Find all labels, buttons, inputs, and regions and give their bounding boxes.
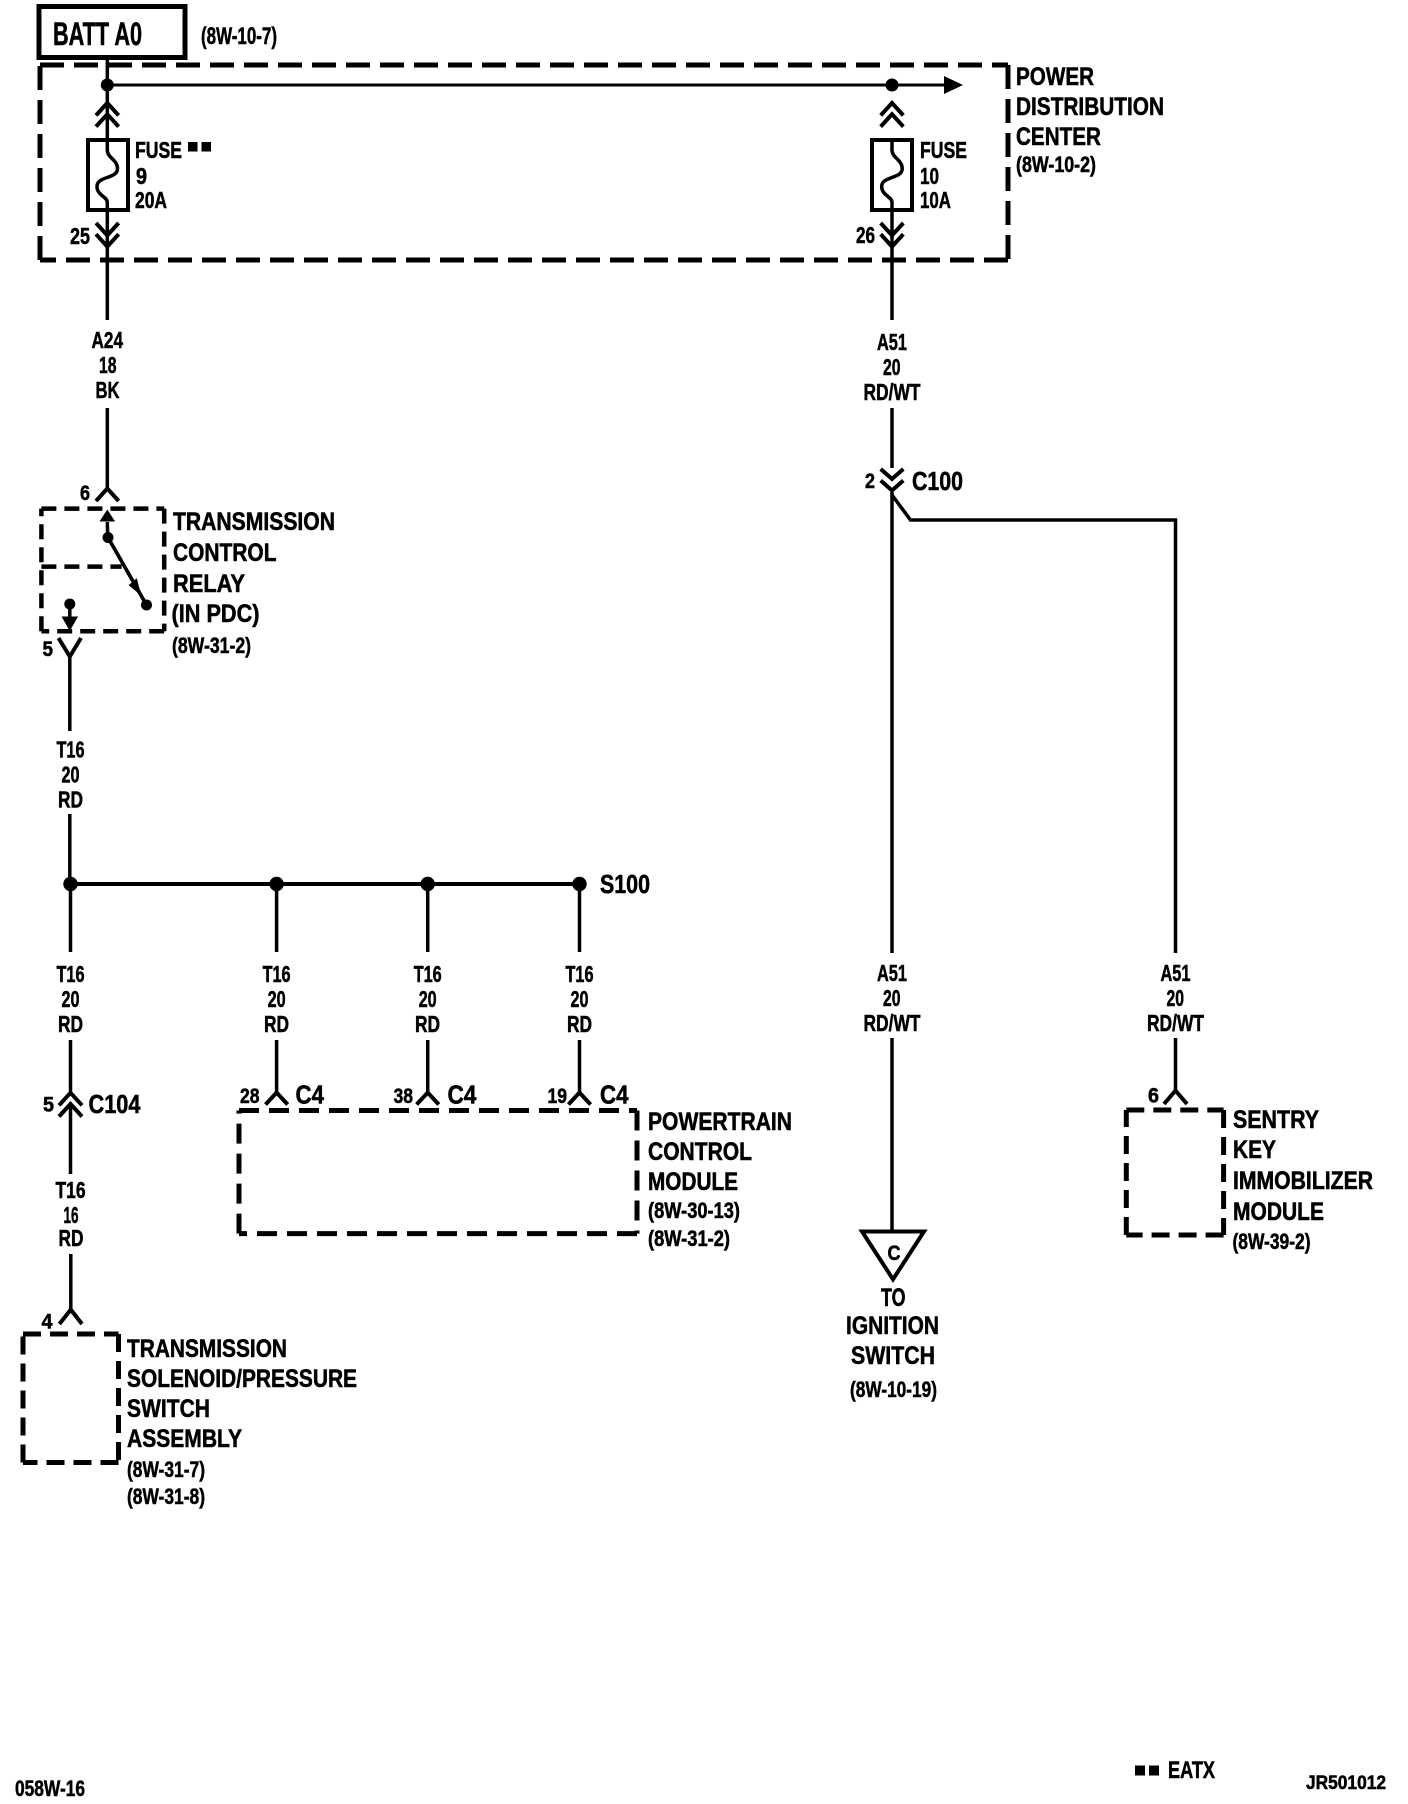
relay common contact arrow (to pin 6) [100, 510, 116, 538]
svg-text:RD: RD [59, 1225, 84, 1251]
svg-text:KEY: KEY [1233, 1136, 1276, 1164]
splice junction dot 3 [421, 877, 435, 891]
wire T16 branch 1 lower segment [69, 1040, 73, 1093]
svg-text:TRANSMISSION: TRANSMISSION [173, 508, 335, 536]
connector chevrons pin 26 [881, 223, 904, 247]
wire A51 segment to immobilizer pin 6 [1174, 1038, 1178, 1091]
svg-text:RD: RD [58, 1011, 83, 1037]
svg-text:18: 18 [99, 352, 117, 378]
svg-text:T16: T16 [566, 961, 594, 987]
connector chevrons pin 25 [96, 223, 119, 247]
wire T16 segment to splice [68, 814, 72, 884]
splice junction dot 4 [572, 877, 586, 891]
svg-text:C4: C4 [296, 1080, 325, 1110]
svg-text:RD: RD [264, 1011, 289, 1037]
svg-text:20: 20 [883, 354, 901, 380]
wire T16 20 RD labels (relay to splice) [57, 737, 85, 813]
svg-text:BK: BK [96, 377, 120, 403]
svg-text:(8W-31-2): (8W-31-2) [648, 1226, 730, 1251]
svg-text:5: 5 [43, 1094, 54, 1117]
svg-text:T16: T16 [263, 961, 291, 987]
svg-text:A51: A51 [1161, 960, 1191, 986]
junction at fuse 9 tap [101, 79, 114, 92]
svg-text:C104: C104 [89, 1089, 141, 1119]
wire T16 branch 3 lower segment [426, 1040, 430, 1093]
power distribution center box [40, 65, 1008, 260]
fuse F9 value labels [135, 137, 211, 213]
svg-text:20: 20 [62, 986, 80, 1012]
svg-text:2: 2 [865, 470, 875, 493]
svg-text:10: 10 [920, 163, 939, 189]
svg-text:(8W-30-13): (8W-30-13) [648, 1198, 740, 1223]
wire A24 18 BK labels [92, 327, 124, 403]
wire A51 main segment below C100 [890, 492, 894, 953]
connector chevron relay pin 5 [59, 638, 82, 657]
connector chevron relay pin 6 [96, 489, 119, 502]
fuse F9 [88, 140, 128, 210]
sentry key immobilizer module box [1126, 1110, 1223, 1235]
svg-text:6: 6 [80, 482, 90, 505]
svg-text:4: 4 [42, 1311, 53, 1334]
svg-text:25: 25 [70, 223, 90, 249]
wire T16 20 RD labels branch 2 [263, 961, 291, 1037]
svg-text:CONTROL: CONTROL [173, 539, 277, 567]
svg-text:T16: T16 [56, 1177, 86, 1203]
fuse F10 [872, 140, 912, 210]
connector chevron C4 pin 28 [266, 1093, 288, 1105]
connector chevron immobilizer pin 6 [1164, 1091, 1187, 1104]
junction at fuse 10 tap [886, 79, 899, 92]
connector chevrons fuse 10 line side [881, 103, 904, 127]
svg-text:C4: C4 [600, 1080, 629, 1110]
svg-text:RD: RD [415, 1011, 440, 1037]
wire T16 branch 4 upper segment [578, 884, 582, 952]
sentry key immobilizer module labels [1233, 1106, 1374, 1254]
wire T16 branch 3 upper segment [426, 884, 430, 952]
svg-text:26: 26 [856, 222, 875, 248]
svg-text:20: 20 [419, 986, 437, 1012]
powertrain control module labels [648, 1108, 792, 1251]
wire branch from C100 to sentry key immobilizer (diagonal + horizontal + vertical) [892, 495, 1176, 953]
svg-text:S100: S100 [600, 869, 650, 899]
EATX legend marker squares [1135, 1766, 1159, 1776]
wire T16 20 RD labels branch 1 [57, 961, 85, 1037]
svg-text:(IN PDC): (IN PDC) [172, 600, 260, 628]
svg-text:IGNITION: IGNITION [846, 1312, 939, 1340]
to ignition switch labels [846, 1284, 939, 1402]
connector chevrons C100 [881, 469, 904, 491]
svg-text:20: 20 [62, 762, 80, 788]
svg-text:BATT A0: BATT A0 [53, 16, 142, 52]
off-page connector C to ignition switch [862, 1232, 924, 1280]
transmission solenoid/pressure switch assembly box [23, 1334, 119, 1463]
wire A51 20 RD/WT labels (to immobilizer) [1147, 960, 1204, 1036]
svg-text:20: 20 [268, 986, 286, 1012]
wire A51 20 RD/WT labels (upper) [864, 329, 921, 405]
svg-text:(8W-31-7): (8W-31-7) [127, 1457, 205, 1482]
wire A51 segment to C100 [890, 408, 894, 468]
svg-text:RD: RD [567, 1011, 592, 1037]
svg-text:ASSEMBLY: ASSEMBLY [127, 1425, 242, 1453]
transmission control relay box [41, 509, 164, 632]
svg-text:6: 6 [1148, 1085, 1159, 1108]
wire T16 20 RD labels branch 4 [566, 961, 594, 1037]
svg-text:(8W-31-2): (8W-31-2) [172, 633, 251, 658]
svg-text:SWITCH: SWITCH [851, 1342, 935, 1370]
svg-text:RD/WT: RD/WT [864, 379, 921, 405]
arrow continuation of BATT bus [944, 76, 963, 94]
splice junction dot 1 [63, 877, 77, 891]
svg-text:A51: A51 [877, 960, 907, 986]
svg-text:T16: T16 [57, 737, 85, 763]
svg-text:FUSE: FUSE [135, 137, 182, 163]
transmission control relay labels [172, 508, 336, 658]
svg-text:(8W-10-2): (8W-10-2) [1016, 152, 1096, 177]
relay movable arm pivot [103, 532, 114, 543]
wire T16 segment to solenoid assembly pin 4 [69, 1254, 73, 1310]
svg-text:MODULE: MODULE [1233, 1198, 1324, 1226]
wire T16 branch 2 lower segment [275, 1040, 279, 1093]
wire T16 16 RD labels [56, 1177, 86, 1251]
svg-text:19: 19 [548, 1085, 568, 1108]
svg-text:CENTER: CENTER [1016, 123, 1101, 151]
fuse F10 value labels [920, 137, 967, 213]
wire A24 segment below PDC [106, 210, 110, 320]
svg-text:SWITCH: SWITCH [127, 1395, 210, 1423]
wire T16 20 RD labels branch 3 [414, 961, 442, 1037]
svg-text:A51: A51 [877, 329, 907, 355]
svg-text:SENTRY: SENTRY [1233, 1106, 1319, 1134]
wire T16 branch 1 upper segment [69, 884, 73, 952]
svg-text:T16: T16 [414, 961, 442, 987]
svg-text:C100: C100 [912, 466, 963, 496]
svg-text:20: 20 [883, 985, 901, 1011]
svg-text:9: 9 [136, 163, 147, 189]
svg-text:(8W-10-7): (8W-10-7) [201, 23, 277, 50]
svg-text:38: 38 [394, 1085, 414, 1108]
svg-text:POWER: POWER [1016, 63, 1094, 91]
svg-text:5: 5 [43, 638, 54, 661]
svg-text:(8W-31-8): (8W-31-8) [127, 1484, 205, 1509]
svg-text:20: 20 [1167, 985, 1185, 1011]
power distribution center label [1016, 63, 1164, 177]
svg-text:20: 20 [571, 986, 589, 1012]
wire T16 from relay pin 5 [68, 657, 72, 732]
transmission solenoid/pressure switch assembly labels [127, 1335, 357, 1509]
wire A51 20 RD/WT labels (to ignition switch) [864, 960, 921, 1036]
svg-text:(8W-39-2): (8W-39-2) [1233, 1229, 1311, 1254]
wire BATT A0 feed (vertical from battery box to fuse 9) [106, 56, 110, 140]
svg-text:C: C [888, 1242, 901, 1265]
connector chevron C4 pin 38 [417, 1093, 439, 1105]
relay output arrow to pin 5 [62, 604, 79, 631]
svg-text:28: 28 [240, 1085, 260, 1108]
svg-text:JR501012: JR501012 [1306, 1773, 1386, 1794]
svg-text:A24: A24 [92, 327, 124, 353]
powertrain control module box [239, 1111, 637, 1234]
connector chevron solenoid assembly pin 4 [59, 1310, 82, 1324]
wire T16 branch 2 upper segment [275, 884, 279, 952]
connector chevron C4 pin 19 [568, 1093, 590, 1105]
svg-text:10A: 10A [920, 187, 951, 213]
svg-text:RELAY: RELAY [173, 570, 245, 598]
connector chevrons C104 [59, 1093, 82, 1117]
svg-text:058W-16: 058W-16 [15, 1776, 85, 1801]
svg-text:EATX: EATX [1168, 1757, 1215, 1784]
svg-text:RD: RD [58, 787, 83, 813]
svg-text:IMMOBILIZER: IMMOBILIZER [1233, 1167, 1373, 1195]
wire A51 segment below PDC [890, 210, 894, 320]
svg-text:SOLENOID/PRESSURE: SOLENOID/PRESSURE [127, 1365, 357, 1393]
relay normally-open contact [141, 600, 152, 611]
svg-text:CONTROL: CONTROL [648, 1138, 752, 1166]
svg-text:POWERTRAIN: POWERTRAIN [648, 1108, 792, 1136]
svg-text:TO: TO [881, 1284, 906, 1312]
wire T16 16 RD segment below C104 [69, 1104, 73, 1174]
relay output contact [64, 599, 75, 610]
wire A24 segment to relay pin 6 [106, 408, 110, 488]
power source box BATT A0 [39, 7, 185, 58]
wire A51 segment to ignition switch connector [890, 1038, 894, 1231]
splice junction dot 2 [269, 877, 283, 891]
svg-text:T16: T16 [57, 961, 85, 987]
svg-text:MODULE: MODULE [648, 1168, 738, 1196]
splice S100 bus wire [71, 882, 580, 886]
svg-text:(8W-10-19): (8W-10-19) [850, 1377, 937, 1402]
svg-text:C4: C4 [448, 1080, 477, 1110]
wire T16 branch 4 lower segment [578, 1040, 582, 1093]
wire BATT A0 bus (horizontal feed to fuse 10) [107, 84, 946, 87]
svg-text:DISTRIBUTION: DISTRIBUTION [1016, 93, 1164, 121]
svg-text:RD/WT: RD/WT [1147, 1010, 1204, 1036]
svg-text:RD/WT: RD/WT [864, 1010, 921, 1036]
svg-text:20A: 20A [135, 187, 167, 213]
svg-text:FUSE: FUSE [920, 137, 967, 163]
relay movable arm [108, 538, 147, 606]
connector chevrons fuse 9 line side [96, 103, 119, 127]
svg-text:TRANSMISSION: TRANSMISSION [127, 1335, 287, 1363]
